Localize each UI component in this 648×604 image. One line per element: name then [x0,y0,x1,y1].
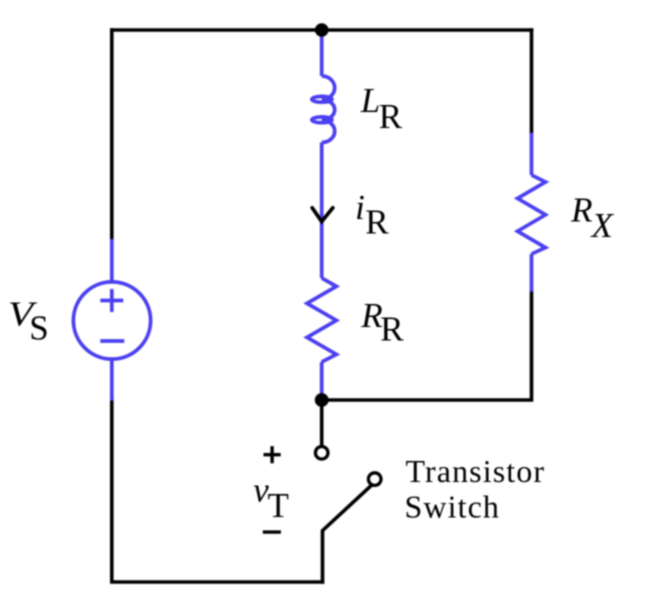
svg-text:R: R [365,203,389,242]
svg-text:i: i [355,188,365,227]
svg-text:R: R [379,97,403,136]
svg-text:Transistor: Transistor [406,453,546,489]
svg-text:X: X [590,206,615,245]
svg-text:T: T [268,486,289,525]
svg-text:Switch: Switch [405,489,501,525]
svg-text:L: L [360,81,380,120]
svg-text:R: R [570,190,592,229]
svg-text:S: S [29,309,48,348]
svg-text:R: R [380,310,404,349]
